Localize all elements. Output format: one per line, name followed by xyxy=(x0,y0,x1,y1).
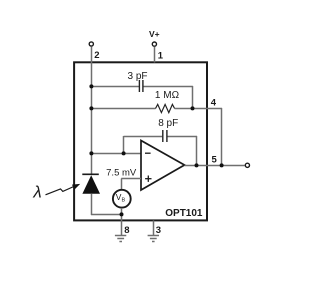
wire: + input horizontal from VB xyxy=(121,178,141,180)
wire: feedback row to pin 4 and outer elbow down xyxy=(175,108,222,110)
svg-text:8: 8 xyxy=(124,225,129,236)
wire: 3pF right drop to feedback node xyxy=(192,86,194,109)
wire: 3pF top branch horizontal xyxy=(92,86,140,88)
junction node: VB bottom / pin 8 xyxy=(120,212,124,216)
junction node: 8pF left on inverting wire xyxy=(122,151,126,155)
junction node: pin4/pin5 external join xyxy=(220,163,224,167)
wire: VB bottom to node xyxy=(121,208,123,215)
capacitor C2 8 pF plates xyxy=(163,130,167,142)
wire: inverting input row y=153 xyxy=(91,153,141,155)
ground symbol at pin 8 xyxy=(115,236,126,242)
junction node: 8pF right on output xyxy=(195,163,199,167)
wire: pin 3 lead down from package xyxy=(153,220,155,235)
svg-text:7.5 mV: 7.5 mV xyxy=(106,167,137,178)
wire: VB top riser xyxy=(121,179,123,190)
lambda light arrow xyxy=(46,184,81,195)
wire: bottom row to VB node xyxy=(91,214,122,216)
svg-text:8 pF: 8 pF xyxy=(158,118,178,129)
resistor R1 1 MOhm zigzag xyxy=(156,104,175,112)
wire: 8pF right drop to output xyxy=(196,136,198,166)
wire: 8pF top horizontal xyxy=(124,136,163,138)
svg-text:4: 4 xyxy=(211,97,217,108)
wire: pin 8 lead down through package xyxy=(121,215,123,236)
svg-text:5: 5 xyxy=(212,155,218,166)
voltage source VB circle xyxy=(113,190,131,208)
terminal output pin 5 (open circle) xyxy=(245,163,249,167)
junction node: 1M left xyxy=(89,106,93,110)
wire: V+ pin 1 lead xyxy=(154,47,156,63)
svg-text:B: B xyxy=(122,198,126,204)
photodiode D1 cathode bar xyxy=(82,173,99,175)
svg-text:3: 3 xyxy=(156,225,161,236)
svg-text:V+: V+ xyxy=(149,29,160,39)
junction node: feedback right (pin 4 inside) xyxy=(191,106,195,110)
junction node: inverting input left xyxy=(89,151,93,155)
photodiode D1 triangle (anode) xyxy=(82,175,100,194)
wire: feedback row y=108 left part xyxy=(92,108,156,110)
IC package outline U1 (OPT101) xyxy=(74,62,207,220)
svg-text:1 MΩ: 1 MΩ xyxy=(155,90,180,101)
capacitor C1 3 pF plates xyxy=(139,80,143,92)
op-amp minus symbol xyxy=(145,152,151,154)
svg-text:3 pF: 3 pF xyxy=(127,71,147,82)
ground symbol at pin 3 xyxy=(148,236,159,242)
wire: left column from pin 2 terminal down to photodiode cathode xyxy=(91,47,93,174)
terminal V+ (open circle) xyxy=(152,42,156,46)
svg-text:1: 1 xyxy=(158,50,164,61)
wire: output row y=165 to terminal xyxy=(185,165,245,167)
junction node: 3pF left xyxy=(89,84,93,88)
wire: 8pF left riser xyxy=(123,136,125,154)
wire: photodiode anode down xyxy=(91,193,93,215)
op-amp A1 triangle xyxy=(141,141,185,191)
svg-text:λ: λ xyxy=(32,183,41,202)
svg-text:OPT101: OPT101 xyxy=(165,208,203,219)
svg-text:2: 2 xyxy=(94,50,99,61)
terminal pin 2 (open circle) xyxy=(89,42,93,46)
op-amp plus symbol xyxy=(145,176,151,182)
